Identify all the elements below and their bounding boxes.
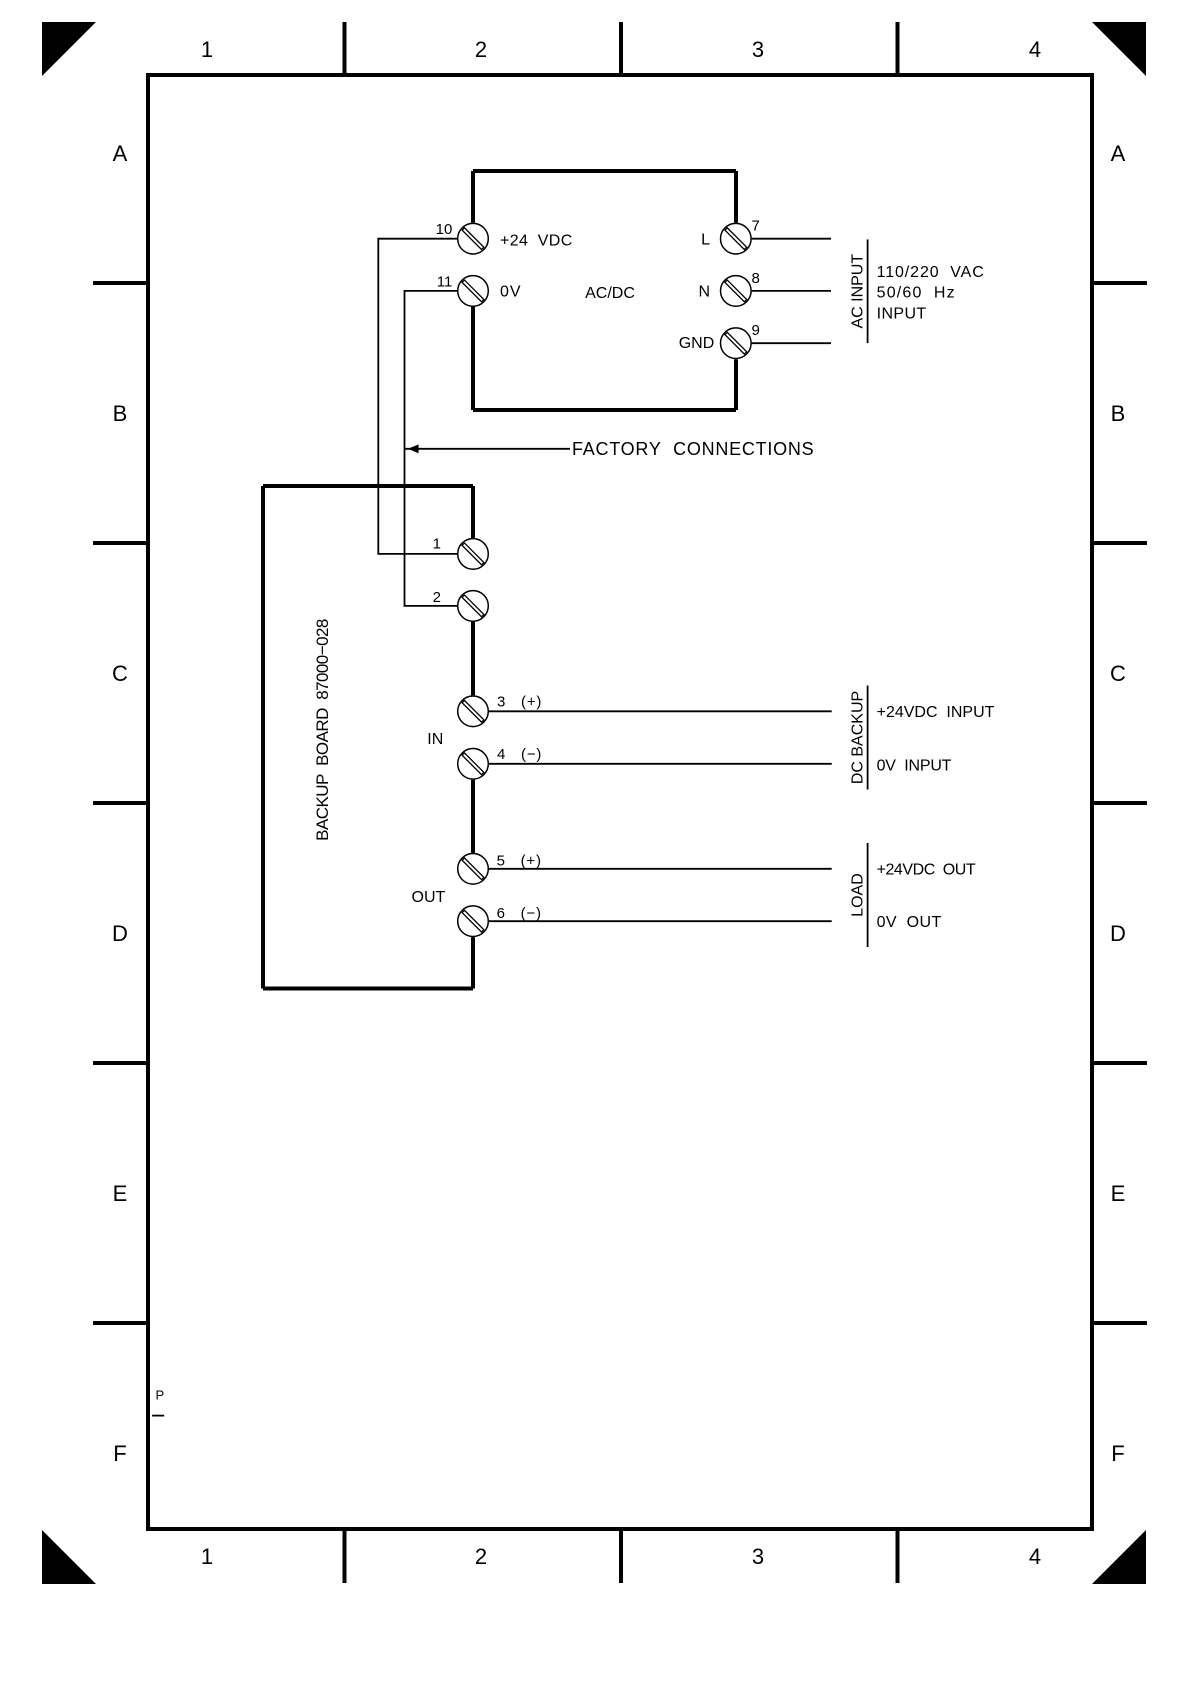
- svg-text:5 (+): 5 (+): [497, 853, 542, 870]
- svg-text:0V OUT: 0V OUT: [877, 914, 942, 931]
- svg-text:2: 2: [433, 589, 441, 606]
- svg-text:50/60 Hz: 50/60 Hz: [877, 284, 956, 301]
- terminal 1: [458, 539, 489, 570]
- svg-text:0V INPUT: 0V INPUT: [877, 757, 952, 774]
- svg-text:E: E: [1111, 1181, 1126, 1206]
- svg-text:+24VDC OUT: +24VDC OUT: [877, 862, 976, 879]
- terminal 11: [458, 276, 489, 307]
- wire factory 0V: terminal 11 to terminal 2: [405, 291, 458, 606]
- svg-text:0V: 0V: [500, 284, 522, 301]
- terminal 5: [458, 854, 489, 885]
- svg-text:+24VDC INPUT: +24VDC INPUT: [877, 704, 995, 721]
- svg-text:4 (−): 4 (−): [497, 746, 542, 763]
- sheet frame: [148, 75, 1092, 1529]
- svg-text:P: P: [156, 1388, 165, 1403]
- svg-text:3: 3: [752, 1544, 764, 1569]
- svg-text:2: 2: [475, 1544, 487, 1569]
- svg-text:C: C: [1110, 661, 1126, 686]
- svg-text:N: N: [698, 284, 710, 301]
- svg-text:1: 1: [433, 536, 441, 553]
- svg-text:FACTORY CONNECTIONS: FACTORY CONNECTIONS: [572, 439, 814, 459]
- svg-text:10: 10: [436, 221, 453, 238]
- svg-text:IN: IN: [427, 731, 443, 748]
- wire GND to AC input: [752, 342, 831, 344]
- svg-text:F: F: [1111, 1441, 1124, 1466]
- svg-text:A: A: [1111, 141, 1126, 166]
- svg-text:AC/DC: AC/DC: [585, 285, 635, 302]
- terminal 6: [458, 906, 489, 937]
- svg-text:BACKUP BOARD 87000−028: BACKUP BOARD 87000−028: [313, 619, 332, 841]
- terminal 2: [458, 591, 489, 622]
- svg-text:6 (−): 6 (−): [497, 905, 542, 922]
- svg-text:3: 3: [752, 37, 764, 62]
- svg-text:DC BACKUP: DC BACKUP: [850, 691, 867, 784]
- svg-text:4: 4: [1029, 37, 1041, 62]
- svg-text:F: F: [113, 1441, 126, 1466]
- svg-text:4: 4: [1029, 1544, 1041, 1569]
- terminal 3: [458, 696, 489, 727]
- svg-text:D: D: [1110, 921, 1126, 946]
- wire terminal 6 to load: [489, 920, 832, 922]
- svg-text:+24 VDC: +24 VDC: [500, 232, 573, 249]
- svg-text:OUT: OUT: [412, 889, 446, 906]
- svg-text:1: 1: [201, 37, 213, 62]
- net LOAD bracket: [867, 843, 869, 947]
- svg-text:A: A: [113, 141, 128, 166]
- power supply AC/DC box: [473, 171, 736, 410]
- net AC INPUT bracket: [867, 239, 869, 343]
- wire N to AC input: [752, 290, 831, 292]
- svg-text:1: 1: [201, 1544, 213, 1569]
- wire terminal 3 to DC backup: [489, 710, 832, 712]
- svg-text:11: 11: [437, 274, 453, 291]
- svg-text:110/220 VAC: 110/220 VAC: [877, 264, 985, 281]
- terminal 9 GND: [721, 328, 752, 359]
- revision mark P: [152, 1388, 164, 1416]
- wire terminal 5 to load: [489, 868, 832, 870]
- terminal 7 L: [721, 223, 752, 254]
- svg-text:8: 8: [752, 270, 760, 287]
- terminal 8 N: [721, 276, 752, 307]
- terminal 4: [458, 749, 489, 780]
- wire L to AC input: [752, 238, 831, 240]
- svg-text:L: L: [701, 231, 710, 248]
- svg-text:AC INPUT: AC INPUT: [850, 254, 867, 329]
- svg-text:D: D: [112, 921, 128, 946]
- svg-text:B: B: [113, 401, 128, 426]
- factory connections note: [405, 439, 815, 459]
- svg-text:9: 9: [752, 322, 760, 339]
- svg-text:3 (+): 3 (+): [497, 694, 542, 711]
- wire terminal 4 to DC backup: [489, 763, 832, 765]
- svg-text:LOAD: LOAD: [850, 873, 867, 917]
- wire factory +24 VDC: terminal 10 to terminal 1: [378, 239, 457, 554]
- svg-text:C: C: [112, 661, 128, 686]
- svg-text:INPUT: INPUT: [877, 305, 927, 322]
- net DC BACKUP bracket: [867, 686, 869, 790]
- svg-text:2: 2: [475, 37, 487, 62]
- svg-text:GND: GND: [679, 335, 715, 352]
- svg-text:E: E: [113, 1181, 128, 1206]
- svg-text:B: B: [1111, 401, 1126, 426]
- backup board 87000-028 box: [263, 486, 473, 989]
- terminal 10: [458, 223, 489, 254]
- svg-text:7: 7: [752, 217, 760, 234]
